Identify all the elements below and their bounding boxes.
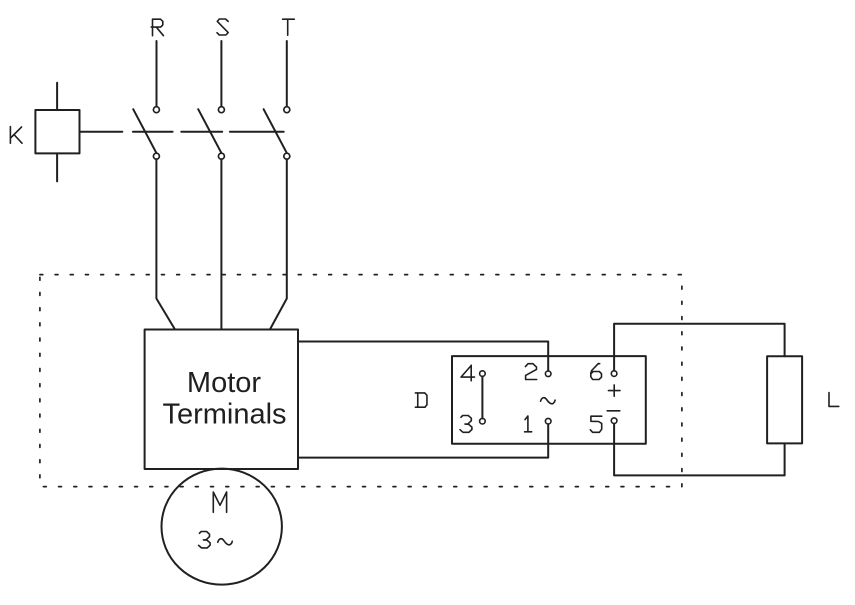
label AC ~ — [541, 398, 556, 404]
label 3~ — [199, 532, 233, 548]
pin 6 label — [591, 364, 602, 380]
pin 4 label — [461, 365, 475, 381]
pin 3 label — [460, 416, 472, 433]
svg-text:Terminals: Terminals — [162, 398, 286, 430]
pin 3 terminal — [480, 418, 486, 424]
wire S supply — [220, 41, 222, 107]
mechanical linkage dashed line — [133, 131, 284, 133]
pin 6 terminal — [611, 371, 617, 377]
label M — [213, 492, 226, 512]
wire T to motor terminals — [270, 159, 287, 329]
rectifier D box — [452, 356, 646, 444]
wire K to linkage — [80, 131, 123, 133]
motor terminals box — [145, 330, 298, 470]
pin 1 label — [525, 416, 532, 432]
wire K coil bottom stub — [56, 153, 58, 181]
pin 2 terminal — [545, 371, 551, 377]
label K — [10, 127, 22, 144]
switch pole R — [133, 107, 159, 160]
wire link pins 4-3 — [481, 376, 483, 418]
switch pole S — [198, 107, 224, 160]
pin 5 label — [590, 416, 601, 432]
pin 2 label — [525, 364, 536, 380]
label T — [283, 19, 295, 35]
pin 1 terminal — [545, 418, 551, 424]
pin 4 terminal — [480, 371, 486, 377]
pin 5 terminal — [611, 418, 617, 424]
contactor K coil box — [35, 110, 79, 153]
wire motor terminals to pin 2 — [298, 342, 548, 371]
dotted enclosure — [40, 275, 682, 487]
wire R supply — [156, 41, 158, 107]
label L — [829, 393, 839, 407]
label R — [151, 19, 163, 36]
label + polarity — [608, 385, 620, 396]
wire R to motor terminals — [156, 159, 175, 329]
svg-text:Motor: Motor — [187, 367, 261, 399]
label Motor Terminals — [162, 367, 286, 431]
motor M circle — [162, 469, 282, 585]
wire K coil top stub — [56, 83, 58, 110]
label - polarity — [607, 410, 620, 412]
load L resistor — [767, 356, 802, 443]
label D — [415, 393, 427, 407]
wire S to motor terminals — [220, 159, 222, 329]
label S — [217, 19, 228, 35]
wire pin 6 to load L plus — [614, 324, 785, 371]
wire motor terminals to pin 1 — [298, 424, 548, 457]
switch pole T — [264, 107, 290, 160]
wire pin 5 to load L minus — [614, 424, 785, 476]
wire T supply — [286, 41, 288, 107]
